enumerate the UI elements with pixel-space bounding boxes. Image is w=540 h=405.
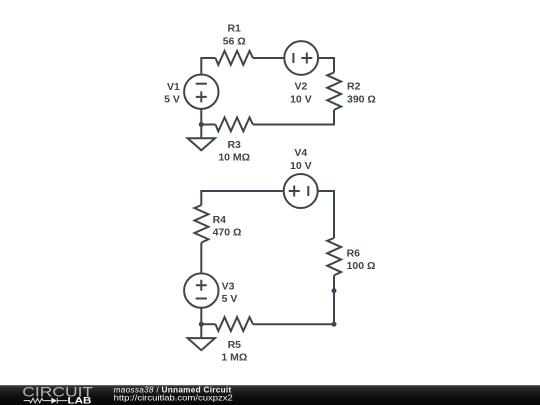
wire V1 bottom to junction xyxy=(200,109,202,125)
voltage source V2 xyxy=(284,41,318,75)
logo resistor squiggle and diode xyxy=(24,398,68,404)
node: V1/R3/ground junction xyxy=(199,122,204,127)
wire bottom-circuit top rail xyxy=(201,191,283,205)
resistor R6 xyxy=(327,238,341,275)
svg-text:http://circuitlab.com/cuxpzx2: http://circuitlab.com/cuxpzx2 xyxy=(114,394,234,403)
svg-text:R2: R2 xyxy=(347,81,361,93)
svg-text:R3: R3 xyxy=(227,139,241,151)
node: below R6 xyxy=(332,288,337,293)
voltage source V1 xyxy=(184,75,218,109)
svg-text:R5: R5 xyxy=(228,339,242,351)
svg-text:LAB: LAB xyxy=(68,395,92,405)
resistor R3 xyxy=(216,117,253,131)
svg-text:56 Ω: 56 Ω xyxy=(223,35,246,47)
svg-text:390 Ω: 390 Ω xyxy=(347,93,376,105)
resistor R4 xyxy=(195,205,209,242)
svg-text:V3: V3 xyxy=(222,280,235,292)
resistor R1 xyxy=(216,51,253,65)
wire junction to R3 xyxy=(201,124,215,126)
wire R1 to V2 xyxy=(253,57,284,59)
resistor R5 xyxy=(216,317,253,331)
svg-text:10 MΩ: 10 MΩ xyxy=(218,152,250,164)
ground (top circuit) xyxy=(188,125,215,151)
wire top-left: V1 top to R1 xyxy=(201,58,215,75)
node: bottom-right corner xyxy=(332,322,337,327)
resistor R2 xyxy=(327,73,341,110)
wire R2 bottom to mid rail xyxy=(253,110,334,125)
wire V4 to R6 top xyxy=(318,191,334,238)
wire R4 to V3 xyxy=(200,243,202,274)
svg-text:R1: R1 xyxy=(227,23,241,35)
svg-text:V1: V1 xyxy=(167,81,180,93)
footer bar xyxy=(0,385,540,405)
wire R6 bottom to corner xyxy=(333,275,335,324)
svg-text:V4: V4 xyxy=(294,147,307,159)
svg-text:10 V: 10 V xyxy=(290,93,312,105)
svg-text:R4: R4 xyxy=(213,214,227,226)
svg-text:10 V: 10 V xyxy=(290,160,312,172)
svg-text:1 MΩ: 1 MΩ xyxy=(221,352,247,364)
svg-text:5 V: 5 V xyxy=(164,93,180,105)
wire junction to R5 xyxy=(201,323,215,325)
wire V3 bottom to junction xyxy=(200,308,202,324)
svg-text:5 V: 5 V xyxy=(222,293,238,305)
voltage source V3 xyxy=(184,273,218,307)
wire R5 to bottom-right corner xyxy=(253,323,334,325)
ground (bottom circuit) xyxy=(188,324,215,350)
wire V2 to R2 top xyxy=(318,58,334,73)
voltage source V4 xyxy=(284,174,318,208)
svg-text:470 Ω: 470 Ω xyxy=(213,226,242,238)
svg-text:V2: V2 xyxy=(294,81,307,93)
svg-text:R6: R6 xyxy=(347,247,361,259)
svg-text:100 Ω: 100 Ω xyxy=(347,260,376,272)
node: V3/R5/ground junction xyxy=(199,322,204,327)
